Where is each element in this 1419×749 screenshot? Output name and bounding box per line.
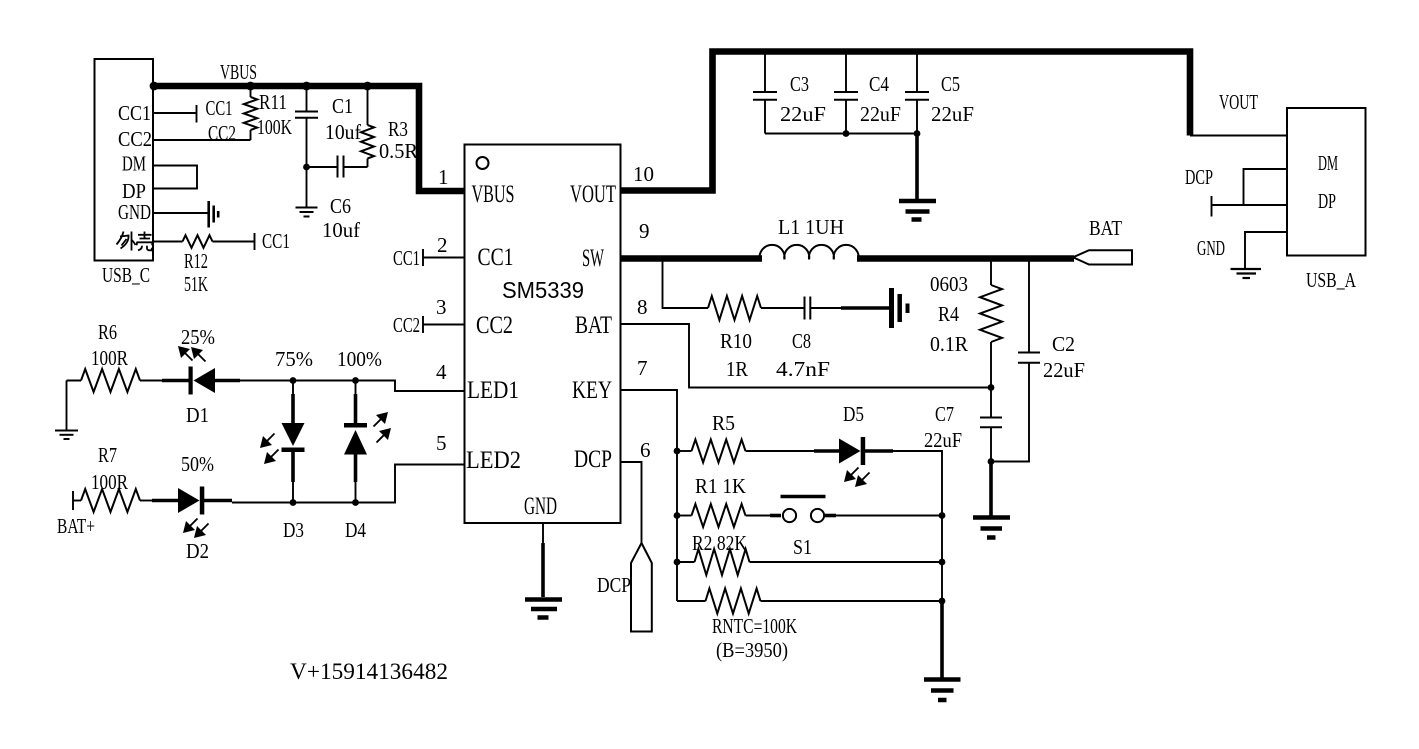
resistor R12	[183, 235, 213, 248]
capacitor C1	[306, 86, 308, 111]
svg-text:R3: R3	[388, 117, 408, 141]
ground (C3 C4 C5)	[899, 201, 936, 220]
junction dot R1 row	[674, 512, 681, 519]
wire CC1 pin stub	[153, 112, 197, 114]
svg-text:22uF: 22uF	[780, 102, 826, 126]
wire R6 left to ground	[67, 381, 82, 431]
capacitor C7	[990, 388, 992, 418]
svg-text:100K: 100K	[257, 115, 292, 139]
svg-text:9: 9	[639, 219, 650, 243]
svg-text:51K: 51K	[184, 272, 208, 296]
svg-text:1R: 1R	[726, 357, 748, 381]
wire SW thick from pin 9	[621, 255, 763, 262]
svg-text:V+15914136482: V+15914136482	[290, 659, 448, 684]
port flag BAT	[1073, 250, 1132, 264]
junction dot R4 bottom	[988, 384, 995, 391]
capacitor C4	[845, 52, 847, 92]
svg-text:0.1R: 0.1R	[930, 332, 968, 356]
wire DP to DCP terminal	[1212, 204, 1288, 206]
junction dot D4 bottom	[352, 499, 359, 506]
wire GND pin stub	[153, 212, 208, 214]
svg-text:22uF: 22uF	[1043, 358, 1085, 382]
inductor L1	[760, 245, 859, 259]
junction dot C1 top	[302, 82, 311, 91]
wire capacitor bottom bus	[765, 133, 917, 135]
junction dot S1 row right	[939, 512, 946, 519]
terminal bar CC2 pin3	[422, 316, 424, 333]
svg-text:CC2: CC2	[476, 312, 513, 339]
wire R5 to D5	[746, 450, 816, 452]
svg-text:C4: C4	[869, 72, 889, 96]
svg-text:22uF: 22uF	[860, 102, 901, 126]
wire right bus down to ground	[941, 516, 943, 602]
wire DM/DP shorting bracket	[153, 166, 197, 189]
svg-text:2: 2	[437, 233, 448, 257]
D4 emission arrows (up-right)	[376, 412, 388, 424]
resistor R11	[250, 86, 252, 97]
svg-text:BAT+: BAT+	[57, 514, 95, 538]
USB_C pin label 外壳 (shell) drawn strokes	[117, 232, 153, 251]
terminal bar CC1	[196, 105, 198, 123]
svg-text:4: 4	[436, 360, 447, 384]
capacitor C2	[1028, 259, 1030, 353]
svg-text:C6: C6	[330, 194, 351, 218]
svg-text:7: 7	[637, 356, 648, 380]
IC pin-1 indicator circle	[477, 157, 489, 169]
D1 emission arrows (up-left)	[178, 346, 190, 358]
resistor R7	[81, 489, 140, 512]
wire IC GND down	[542, 523, 544, 545]
resistor R1	[677, 515, 692, 517]
wire BAT pin 8 route	[621, 324, 992, 388]
wire R2 to right bus	[750, 561, 943, 563]
resistor R10	[708, 296, 761, 320]
svg-text:D5: D5	[843, 402, 864, 426]
svg-text:L1 1UH: L1 1UH	[778, 215, 844, 239]
D2 emission arrows (down-left)	[183, 521, 195, 533]
wire KEY pin 7 bus	[621, 390, 678, 601]
svg-text:75%: 75%	[275, 347, 313, 371]
ground (C7)	[973, 518, 1010, 538]
svg-text:50%: 50%	[181, 452, 214, 476]
svg-text:100%: 100%	[337, 347, 382, 371]
svg-text:CC2: CC2	[118, 127, 152, 151]
wire CC2 pin to R11 bottom	[153, 139, 251, 141]
wire R6 to D1	[140, 380, 163, 382]
ground chassis symbol (USB_C GND)	[209, 201, 219, 228]
svg-text:R6: R6	[98, 320, 117, 344]
op-amp / IC U1 SM5339 body	[465, 145, 621, 524]
svg-text:R7: R7	[98, 443, 117, 467]
ground chassis (C8)	[892, 288, 908, 328]
svg-text:USB_A: USB_A	[1306, 268, 1357, 292]
svg-text:C2: C2	[1052, 332, 1075, 356]
svg-text:USB_C: USB_C	[102, 263, 150, 287]
terminal bar DCP	[1211, 196, 1213, 217]
wire VOUT thick rail from pin 10	[621, 52, 1191, 191]
junction dot D4 top	[352, 377, 359, 384]
wire VBUS thick rail to IC pin 1	[153, 86, 465, 191]
wire LED2 row to IC pin 5	[232, 465, 465, 503]
svg-text:GND: GND	[118, 200, 151, 224]
resistor R4	[990, 259, 992, 286]
svg-text:22uF: 22uF	[931, 102, 974, 126]
connector USB_C	[95, 59, 154, 261]
svg-text:VOUT: VOUT	[570, 181, 616, 208]
resistor R2	[677, 561, 695, 563]
wire C5 bus to ground	[915, 134, 919, 200]
wire R12 to CC1 terminal	[213, 241, 255, 243]
svg-text:BAT: BAT	[1089, 216, 1122, 240]
svg-text:D3: D3	[283, 518, 304, 542]
svg-text:6: 6	[640, 438, 651, 462]
junction dot R11 top	[246, 82, 255, 91]
svg-text:LED1: LED1	[467, 377, 519, 404]
LED D1 (points left)	[162, 379, 189, 383]
wire D5 to right bus	[893, 451, 942, 516]
junction dot D3 top	[290, 377, 297, 384]
wire S1 to right bus	[836, 515, 942, 517]
wire LED1 row to IC pin 4	[240, 381, 465, 392]
svg-text:R5: R5	[712, 411, 735, 435]
svg-text:VBUS: VBUS	[472, 181, 515, 208]
svg-text:LED2: LED2	[466, 447, 521, 474]
svg-text:0603: 0603	[930, 272, 968, 296]
junction dot RNTC row right	[939, 598, 946, 605]
svg-text:10uf: 10uf	[322, 218, 360, 242]
wire SW to R10 row	[663, 259, 709, 309]
svg-text:10: 10	[633, 162, 654, 186]
wire RNTC to right bus	[761, 600, 943, 602]
svg-text:3: 3	[436, 295, 447, 319]
svg-text:KEY: KEY	[572, 377, 612, 404]
ground (USB_A)	[1231, 269, 1262, 278]
wire R10 to C8	[761, 307, 804, 309]
D3 emission arrows (down-left)	[260, 436, 272, 448]
wire BAT+ to R7	[73, 500, 81, 502]
svg-text:CC1: CC1	[118, 101, 151, 125]
svg-text:R10: R10	[720, 329, 752, 353]
svg-text:8: 8	[637, 295, 648, 319]
svg-text:C7: C7	[935, 402, 954, 426]
svg-text:100R: 100R	[91, 470, 128, 494]
svg-text:R12: R12	[184, 249, 208, 273]
junction dot R2 row	[674, 559, 681, 566]
svg-text:0.5R: 0.5R	[379, 139, 418, 163]
svg-text:CC1: CC1	[393, 246, 420, 270]
svg-text:R2 82K: R2 82K	[692, 531, 747, 555]
D5 emission arrows (down-left)	[844, 470, 856, 482]
junction dot C6 node	[303, 164, 310, 171]
capacitor C5	[916, 52, 918, 92]
LED D3 (points down)	[292, 381, 294, 396]
svg-text:C5: C5	[941, 72, 960, 96]
capacitor C8	[805, 297, 811, 320]
junction dot R5 row	[674, 448, 681, 455]
svg-text:4.7nF: 4.7nF	[776, 357, 830, 381]
connector USB_A	[1287, 108, 1366, 256]
wire CC1 stub to pin 2	[423, 257, 465, 259]
LED D2 (points right)	[152, 499, 179, 503]
terminal bar BAT+	[72, 491, 74, 510]
svg-text:1: 1	[438, 165, 449, 189]
svg-text:BAT: BAT	[575, 312, 612, 339]
svg-text:R4: R4	[938, 302, 959, 326]
svg-text:DP: DP	[1318, 189, 1336, 213]
svg-text:VOUT: VOUT	[1219, 90, 1258, 114]
wire USB_A GND	[1245, 232, 1287, 269]
resistor R5	[677, 450, 692, 452]
resistor R3	[367, 86, 369, 125]
junction dot D3 bottom	[290, 499, 297, 506]
junction dot C7 bottom	[988, 458, 995, 465]
svg-text:CC1: CC1	[478, 244, 514, 271]
port flag DCP	[631, 543, 652, 632]
svg-text:RNTC=100K: RNTC=100K	[712, 614, 797, 638]
svg-text:D1: D1	[186, 403, 209, 427]
wire VOUT thin to USB_A	[1190, 135, 1287, 137]
svg-text:SW: SW	[582, 245, 604, 272]
svg-text:C1: C1	[332, 94, 353, 118]
svg-text:25%: 25%	[181, 325, 215, 349]
wire DCP pin 6	[621, 462, 642, 543]
svg-text:R11: R11	[259, 90, 287, 114]
svg-text:D2: D2	[186, 539, 209, 563]
wire 外壳 pin stub	[153, 241, 183, 243]
switch S1	[770, 514, 781, 518]
LED D4 (points up)	[355, 381, 357, 396]
svg-text:GND: GND	[524, 493, 557, 520]
capacitor C3	[764, 52, 766, 92]
svg-text:VBUS: VBUS	[220, 60, 257, 84]
resistor R6	[81, 369, 140, 392]
wire R7 to D2	[140, 500, 153, 502]
capacitor C6	[307, 166, 338, 168]
ground (R6)	[55, 431, 78, 440]
ground (bottom right)	[924, 680, 961, 701]
svg-text:100R: 100R	[91, 346, 128, 370]
wire DM to DP node	[1244, 169, 1288, 205]
svg-text:CC1: CC1	[262, 229, 290, 253]
svg-text:(B=3950): (B=3950)	[716, 638, 788, 662]
terminal bar CC1 (R12)	[254, 233, 256, 250]
junction dot VBUS at USB_C	[150, 82, 159, 91]
svg-text:CC1: CC1	[206, 96, 233, 120]
terminal bar CC1 pin2	[422, 249, 424, 266]
svg-text:DM: DM	[1318, 151, 1338, 175]
wire CC2 stub to pin 3	[423, 324, 465, 326]
svg-text:D4: D4	[345, 518, 366, 542]
svg-text:DM: DM	[122, 152, 146, 176]
junction dot C4 bottom	[843, 130, 850, 137]
svg-text:SM5339: SM5339	[502, 277, 584, 303]
svg-text:CC2: CC2	[208, 121, 236, 145]
wire C8 to chassis ground	[811, 307, 843, 309]
svg-text:R1 1K: R1 1K	[695, 474, 746, 498]
junction dot R3 top	[363, 82, 372, 91]
svg-text:GND: GND	[1197, 236, 1225, 260]
svg-text:DCP: DCP	[574, 446, 612, 473]
svg-text:5: 5	[436, 431, 447, 455]
wire R1 to S1	[746, 515, 772, 517]
svg-text:CC2: CC2	[393, 313, 420, 337]
svg-text:DCP: DCP	[1185, 165, 1213, 189]
wire SW thick to BAT	[857, 255, 1074, 262]
svg-text:22uF: 22uF	[924, 428, 962, 452]
ground (IC GND)	[525, 600, 562, 618]
svg-text:C3: C3	[790, 72, 809, 96]
resistor RNTC	[677, 600, 706, 602]
junction dot C5 bottom	[914, 130, 921, 137]
wire C7 node to ground	[989, 462, 993, 517]
svg-text:10uf: 10uf	[325, 120, 361, 144]
svg-text:DCP: DCP	[597, 573, 631, 597]
junction dot R2 row right	[939, 559, 946, 566]
ground (C1)	[296, 208, 318, 217]
svg-text:C8: C8	[792, 329, 811, 353]
LED D5 (points right)	[814, 449, 840, 453]
svg-text:S1: S1	[793, 535, 812, 559]
